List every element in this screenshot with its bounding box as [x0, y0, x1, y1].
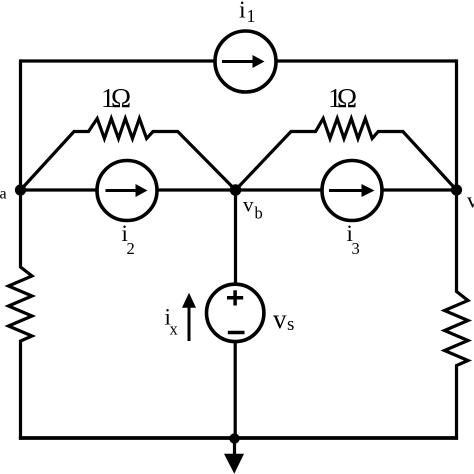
svg-text:b: b [255, 204, 263, 223]
svg-text:Ω: Ω [111, 83, 131, 113]
svg-text:Ω: Ω [337, 83, 357, 113]
svg-text:a: a [0, 186, 7, 203]
svg-text:v: v [273, 304, 287, 334]
svg-text:i: i [239, 0, 246, 24]
svg-text:s: s [287, 314, 294, 335]
svg-text:x: x [170, 320, 179, 339]
svg-text:3: 3 [352, 239, 360, 258]
svg-text:v: v [243, 193, 254, 217]
svg-text:2: 2 [127, 239, 135, 258]
svg-text:v: v [467, 188, 474, 213]
svg-text:1: 1 [247, 6, 256, 26]
